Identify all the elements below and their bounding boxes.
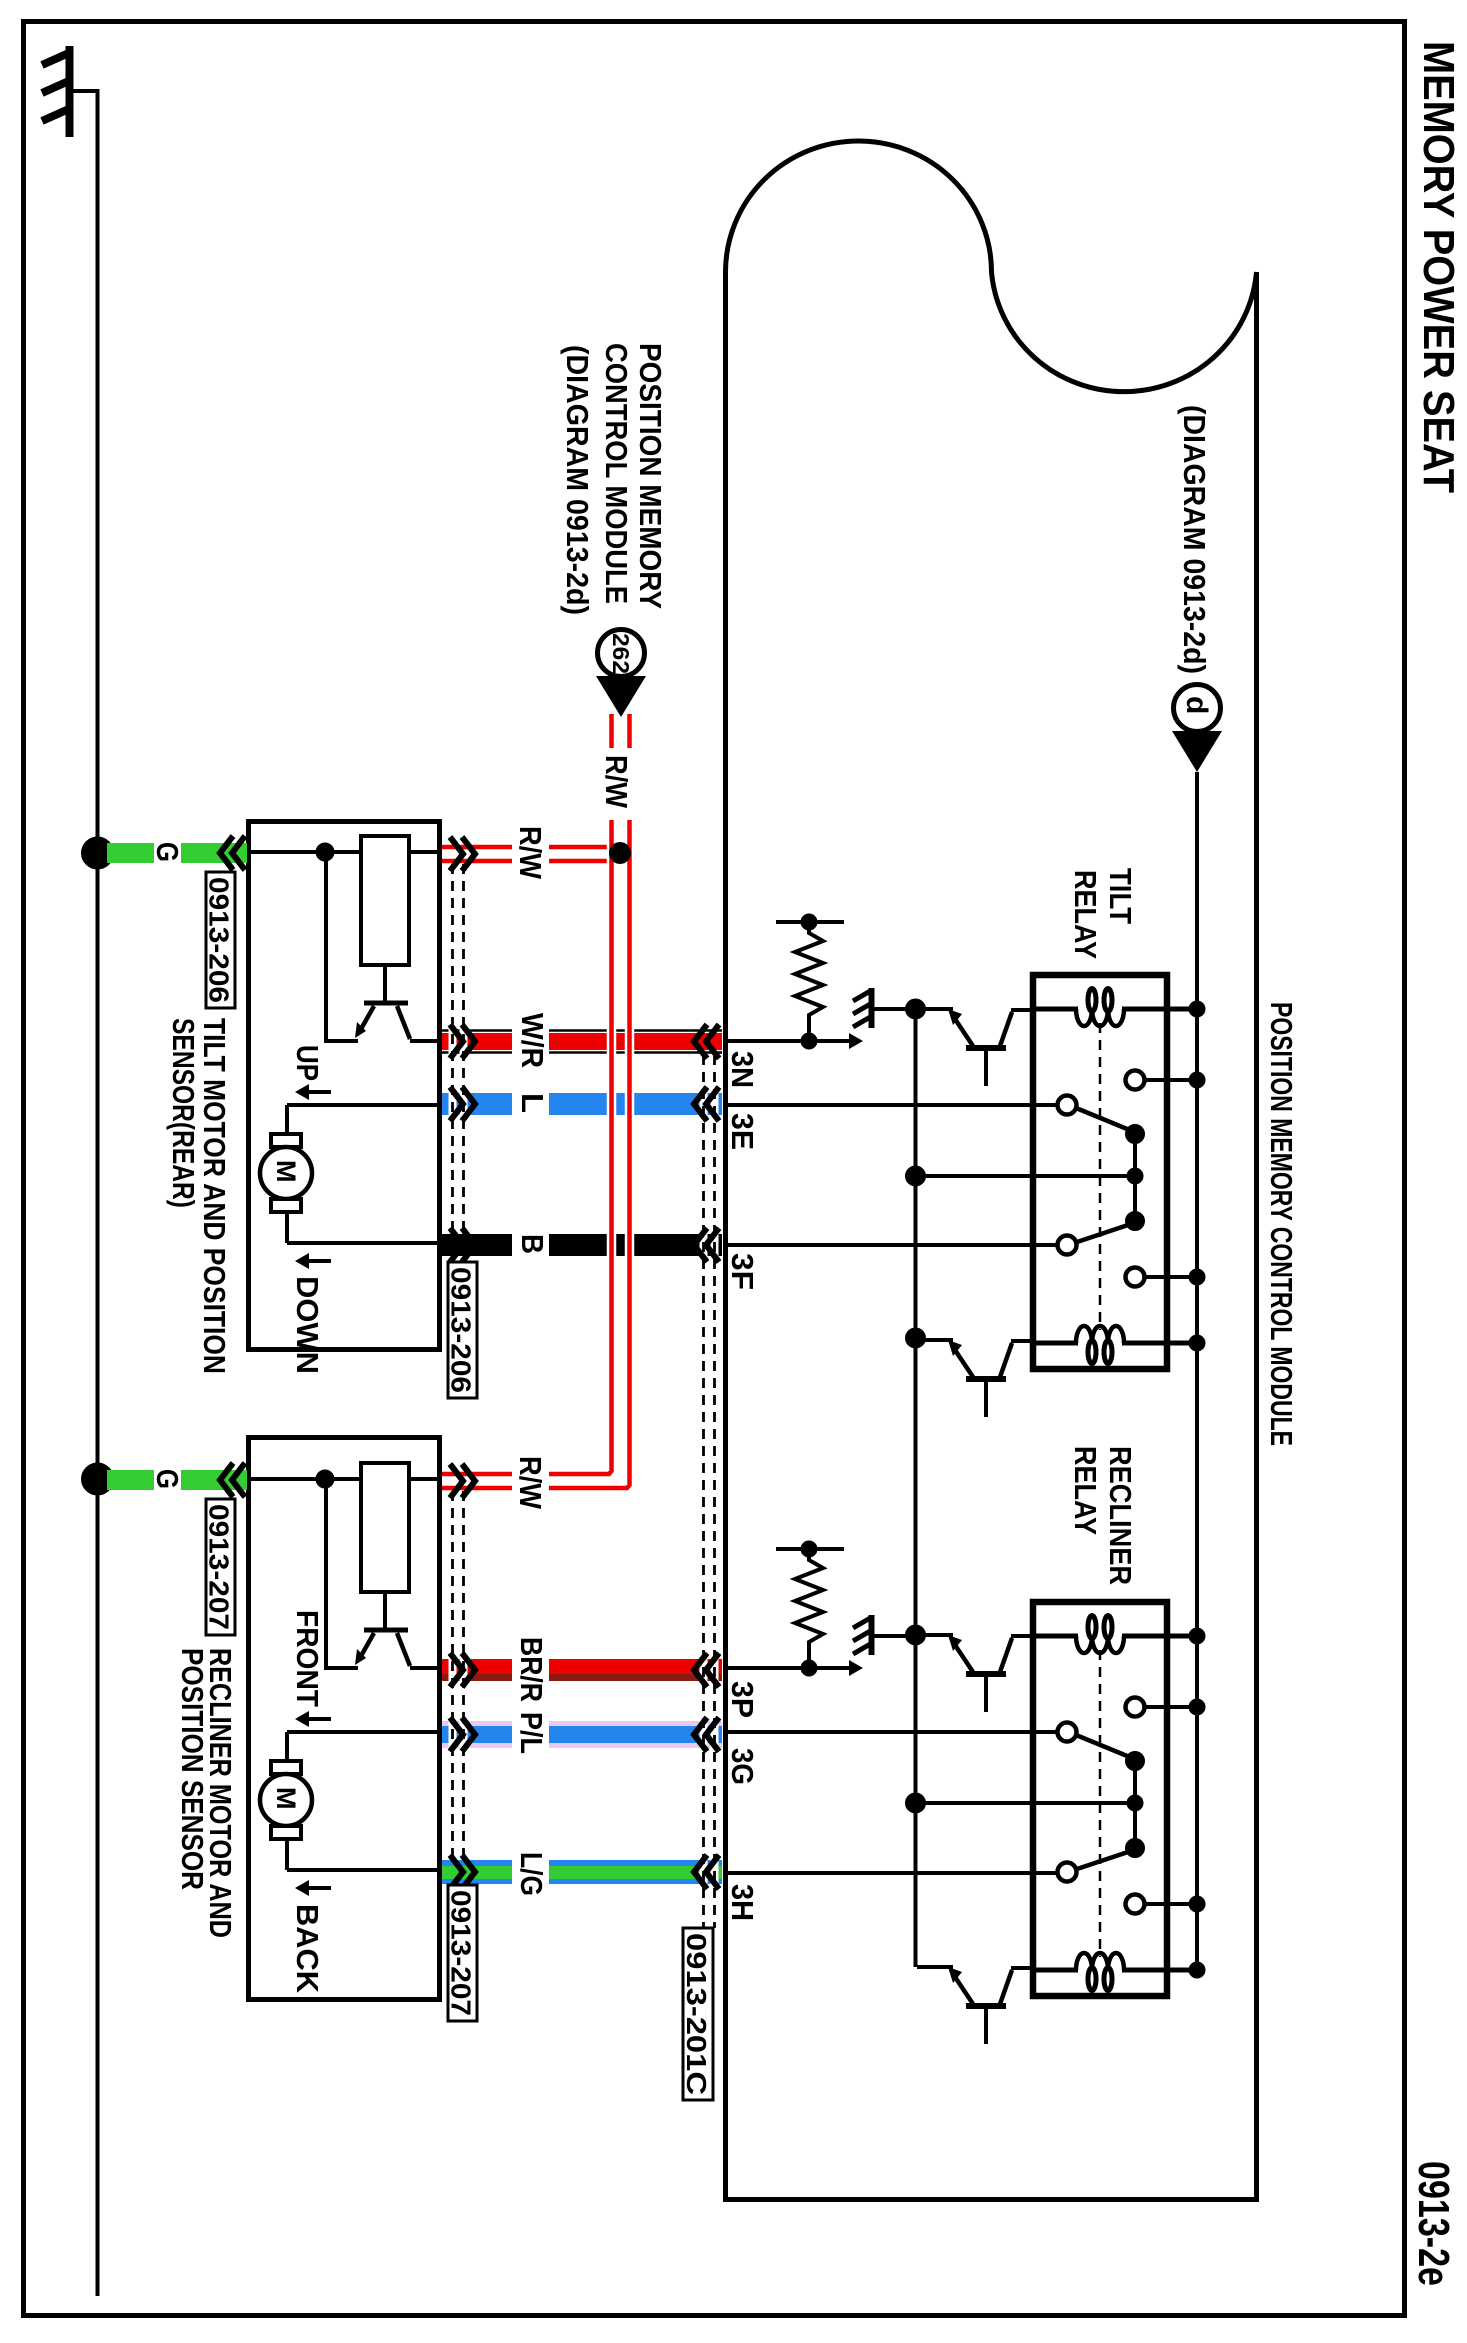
svg-text:RELAY: RELAY (1068, 1446, 1103, 1535)
svg-text:TILT: TILT (1103, 868, 1138, 924)
svg-text:BR/R: BR/R (514, 1637, 549, 1702)
svg-text:d: d (1180, 696, 1213, 714)
svg-text:B: B (515, 1234, 550, 1254)
svg-text:G: G (150, 1469, 185, 1489)
svg-text:3H: 3H (725, 1884, 760, 1921)
svg-text:W/R: W/R (515, 1013, 550, 1068)
svg-text:M: M (271, 1160, 301, 1183)
svg-text:POSITION MEMORY: POSITION MEMORY (633, 343, 668, 609)
svg-text:0913-201C: 0913-201C (681, 1933, 712, 2095)
svg-text:G: G (150, 842, 185, 862)
svg-text:3E: 3E (725, 1113, 760, 1150)
svg-text:MEMORY POWER SEAT: MEMORY POWER SEAT (1414, 41, 1463, 493)
svg-text:3P: 3P (725, 1681, 760, 1718)
svg-text:R/W: R/W (513, 1456, 548, 1510)
svg-text:M: M (271, 1787, 301, 1810)
svg-text:DOWN: DOWN (290, 1276, 325, 1374)
svg-text:(DIAGRAM 0913-2d): (DIAGRAM 0913-2d) (1177, 405, 1212, 674)
svg-text:CONTROL MODULE: CONTROL MODULE (599, 343, 634, 604)
svg-text:UP: UP (290, 1045, 325, 1081)
svg-text:RECLINER: RECLINER (1103, 1446, 1138, 1585)
svg-text:L: L (515, 1093, 550, 1113)
svg-text:3N: 3N (725, 1051, 760, 1088)
svg-text:(DIAGRAM 0913-2d): (DIAGRAM 0913-2d) (560, 345, 595, 615)
svg-text:R/W: R/W (599, 755, 634, 809)
svg-text:0913-207: 0913-207 (204, 1504, 235, 1630)
svg-text:R/W: R/W (513, 826, 548, 880)
svg-text:0913-2e: 0913-2e (1409, 2161, 1458, 2286)
svg-text:SENSOR(REAR): SENSOR(REAR) (166, 1018, 201, 1208)
svg-text:3F: 3F (725, 1253, 760, 1290)
svg-text:P/L: P/L (514, 1712, 549, 1754)
svg-text:TILT MOTOR AND POSITION: TILT MOTOR AND POSITION (197, 1018, 232, 1374)
svg-text:FRONT: FRONT (290, 1610, 325, 1707)
svg-text:POSITION SENSOR: POSITION SENSOR (175, 1648, 210, 1890)
svg-text:0913-206: 0913-206 (204, 877, 235, 1003)
svg-text:L/G: L/G (514, 1852, 549, 1896)
svg-text:0913-207: 0913-207 (446, 1890, 477, 2016)
svg-text:RELAY: RELAY (1068, 870, 1103, 959)
svg-text:0913-206: 0913-206 (446, 1267, 477, 1393)
svg-text:POSITION MEMORY CONTROL MODULE: POSITION MEMORY CONTROL MODULE (1264, 1002, 1299, 1446)
svg-text:262: 262 (608, 633, 634, 674)
svg-text:BACK: BACK (290, 1904, 325, 1994)
svg-text:3G: 3G (725, 1748, 760, 1785)
